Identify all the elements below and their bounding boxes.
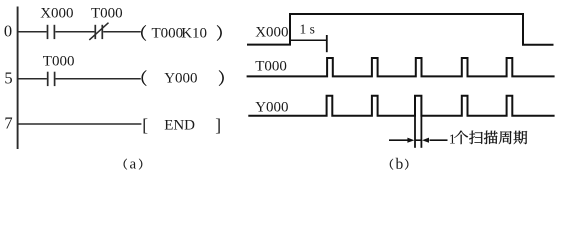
wire rung0 middle <box>55 31 94 33</box>
svg-text:[: [ <box>142 115 148 135</box>
output coil Y000 <box>142 70 224 86</box>
T000 waveform <box>247 58 555 76</box>
middle connector <box>415 139 421 141</box>
caption (a) <box>124 157 143 173</box>
svg-text:T000: T000 <box>43 54 75 70</box>
label 1个扫描周期 <box>449 131 527 148</box>
right arrow <box>422 138 448 143</box>
svg-text:]: ] <box>215 115 221 135</box>
svg-text:END: END <box>164 118 195 134</box>
svg-text:T000: T000 <box>91 6 123 22</box>
svg-text:Y000: Y000 <box>164 71 197 87</box>
svg-text:X000: X000 <box>40 6 73 22</box>
scan cycle marker lines (3rd pulse edge extensions) <box>415 116 421 148</box>
svg-text:Y000: Y000 <box>255 100 288 116</box>
wire rung0 left <box>18 31 47 33</box>
NO contact T000 (rung5) <box>48 72 55 86</box>
svg-text:0: 0 <box>4 21 12 40</box>
svg-text:1: 1 <box>449 132 456 147</box>
END instruction <box>142 115 221 135</box>
svg-text:b: b <box>396 156 404 173</box>
NC contact T000 <box>89 23 108 40</box>
NO contact X000 <box>48 25 55 39</box>
svg-text:1 s: 1 s <box>300 21 315 36</box>
caption (b) <box>390 156 408 173</box>
X000 waveform <box>247 14 554 45</box>
wire rung0 to coil <box>103 31 141 33</box>
Y000 waveform <box>248 96 554 116</box>
wire rung5 to coil <box>56 78 141 80</box>
left power rail <box>17 7 19 150</box>
1 s interval line and tick <box>291 35 327 52</box>
svg-text:T000: T000 <box>255 59 287 75</box>
svg-text:X000: X000 <box>255 25 288 41</box>
svg-text:a: a <box>130 157 137 173</box>
svg-text:T000: T000 <box>152 25 184 41</box>
wire rung7 <box>18 123 142 125</box>
wire rung5 left <box>18 78 47 80</box>
svg-text:7: 7 <box>4 114 12 133</box>
timer coil T000 K10 <box>141 25 221 41</box>
svg-text:K10: K10 <box>181 25 207 41</box>
svg-text:5: 5 <box>4 68 12 87</box>
left arrow <box>389 138 414 143</box>
